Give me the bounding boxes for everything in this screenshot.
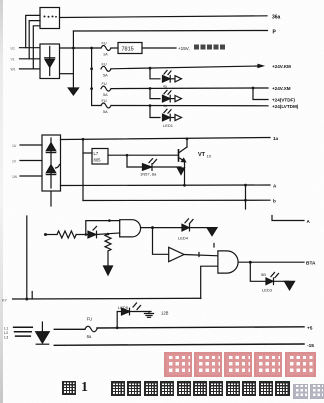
wire riser — [117, 312, 122, 328]
svg-text:4a: 4a — [163, 84, 167, 88]
wire drop to zener line — [126, 155, 128, 167]
node rail tap — [85, 233, 88, 236]
wire bus to regulator — [83, 152, 92, 154]
wire row2 main — [111, 66, 258, 69]
rail P to right edge — [73, 30, 267, 33]
node row4 branch — [149, 104, 152, 107]
wire vertical bus2 feeding fuse rows — [92, 48, 101, 106]
svg-text:L7: L7 — [94, 151, 99, 156]
breaker box QF — [40, 8, 60, 29]
node tall vertical joins — [25, 298, 28, 301]
svg-text:FU: FU — [102, 42, 107, 46]
wire AND2 lower input feedback — [201, 266, 218, 298]
svg-text:L2: L2 — [4, 331, 8, 335]
wire AND1 output — [141, 227, 182, 229]
svg-text:12B: 12B — [161, 311, 169, 316]
wire 7815 output — [142, 47, 176, 49]
rail b — [83, 199, 270, 201]
svg-text:FU: FU — [102, 82, 107, 86]
node LED5 riser — [116, 326, 119, 329]
bracket stub A — [272, 216, 304, 221]
wire bus x83 down — [82, 139, 84, 200]
svg-text:VT: VT — [198, 152, 206, 158]
node on top rail — [108, 219, 111, 222]
wire bus down from rail A to section3 — [245, 185, 247, 209]
svg-text:1A: 1A — [103, 53, 108, 57]
svg-text:+15V,: +15V, — [178, 46, 190, 51]
wire VC1 minus output — [60, 73, 73, 75]
wire zener line — [127, 166, 181, 168]
svg-text:5A: 5A — [103, 93, 108, 97]
LED D21 — [163, 76, 171, 83]
arrow ground R2 — [104, 266, 113, 275]
LED D41 — [163, 114, 171, 121]
diode D8 — [41, 322, 43, 332]
svg-text:LED4: LED4 — [178, 236, 189, 241]
pin mark — [198, 253, 200, 257]
LED D6 — [182, 224, 189, 231]
buffer U4 — [169, 247, 184, 261]
zener VZ1 — [143, 164, 152, 171]
svg-text:805: 805 — [94, 158, 102, 163]
ground G1 — [68, 88, 78, 95]
wire VC2 top output rail — [61, 138, 271, 140]
svg-text:1V: 1V — [12, 159, 17, 163]
stub below VC2 — [50, 191, 52, 206]
fuse FU4 — [101, 103, 111, 108]
open arrow row2 branch end — [175, 76, 182, 82]
wire minus line — [54, 344, 304, 345]
svg-text:FU: FU — [87, 317, 93, 322]
svg-text:LED3: LED3 — [262, 288, 273, 293]
svg-text:36a: 36a — [272, 14, 281, 20]
node row3 branch — [149, 87, 152, 90]
svg-text:+24(VTDF): +24(VTDF) — [272, 98, 295, 103]
LED D7 — [266, 278, 273, 285]
bridge rectifier VC1 — [40, 44, 60, 79]
svg-text:1a: 1a — [273, 136, 279, 141]
diode VC2 upper — [46, 143, 55, 151]
svg-text:KY: KY — [2, 298, 8, 302]
fuse FU1 — [101, 46, 111, 51]
svg-text:BTA: BTA — [306, 261, 316, 267]
node R2 tap — [107, 233, 110, 236]
AND gate U3 — [120, 220, 141, 237]
svg-text:W1: W1 — [11, 68, 16, 72]
transistor VT10 — [178, 150, 180, 161]
phase input 2U — [20, 144, 42, 146]
svg-text:FU: FU — [102, 99, 107, 103]
ground G3 — [207, 228, 217, 236]
wire tall left vertical — [26, 216, 28, 299]
svg-text:L3: L3 — [4, 336, 8, 340]
wire up to top rail — [86, 221, 120, 235]
svg-text:5A: 5A — [103, 73, 108, 77]
transformer bars — [14, 326, 33, 328]
watermark yiditala training (pink) — [164, 352, 192, 377]
caption 图1 — [62, 381, 76, 395]
svg-text:L1: L1 — [4, 327, 8, 331]
fuse FU3 — [101, 86, 111, 91]
wire row3 split down to VTDF — [253, 88, 268, 100]
resistor R2 vertical — [105, 234, 111, 251]
wire U2 output to base — [108, 154, 179, 156]
node zener tap — [126, 154, 129, 157]
wire QF tap phase 2 — [29, 21, 40, 59]
open arrow row3 branch end — [175, 96, 182, 102]
node at bus1 — [72, 47, 75, 50]
wire +5 line — [97, 327, 304, 328]
diode D5 — [88, 231, 96, 238]
node row2 branch — [149, 67, 152, 70]
wire LED3 to gnd — [274, 280, 290, 282]
svg-text:1U: 1U — [12, 144, 17, 148]
tick on KY line — [31, 292, 33, 300]
node bus2 row3 — [90, 87, 93, 90]
wire AND2 output to BTA — [238, 261, 304, 263]
wire row3 to XM label — [253, 87, 268, 89]
wire node to resistor — [46, 234, 58, 236]
wire LED to gnd — [190, 227, 213, 229]
svg-text:5B: 5B — [261, 272, 266, 277]
svg-text:+5: +5 — [307, 326, 313, 332]
svg-text:LED1: LED1 — [163, 123, 174, 128]
bridge rectifier VC2 — [42, 135, 61, 191]
left scan edge band — [0, 0, 3, 403]
phase input U1 — [20, 47, 40, 49]
LED D31 — [163, 95, 171, 102]
caption chars — [111, 381, 125, 396]
svg-text:b: b — [273, 199, 276, 204]
thyristor VC2 lower — [46, 165, 55, 173]
wire row4 LED branch — [150, 106, 160, 118]
wire row2 LED branch — [150, 68, 160, 79]
svg-text:+24(LVTDM): +24(LVTDM) — [272, 104, 299, 109]
watermark expert gray — [293, 384, 308, 399]
wire QF tap phase 1 — [26, 15, 40, 47]
wire QF output to right, net 36a — [60, 16, 268, 18]
svg-text:U1: U1 — [11, 47, 15, 51]
svg-text:1W: 1W — [12, 175, 18, 179]
wire resistor to diode — [76, 234, 88, 236]
svg-text:FU: FU — [102, 62, 107, 66]
arrow row2 end — [258, 64, 263, 67]
ground G4 — [285, 281, 295, 290]
wire AND1 out down to buffer — [153, 228, 169, 255]
rail A — [61, 184, 271, 187]
regulator 7815 — [111, 47, 118, 49]
wire to fuse — [54, 328, 85, 330]
node row3 split — [252, 87, 255, 90]
wire row3 main — [111, 87, 253, 90]
ground G2 — [178, 168, 185, 175]
ground G5 bars — [148, 312, 150, 314]
open arrow row4 branch end — [175, 114, 182, 120]
node at bus2 — [90, 47, 93, 50]
node rail bus x83 — [82, 138, 85, 141]
svg-text:-15: -15 — [307, 343, 314, 349]
wire KY line — [13, 297, 201, 300]
svg-text:10: 10 — [207, 154, 212, 159]
phase input W1 — [20, 68, 40, 70]
svg-text:+24V.XM: +24V.XM — [272, 86, 291, 91]
wire row4 main — [111, 105, 268, 107]
wire buffer to AND2 — [184, 255, 218, 256]
svg-text:+24V.KM: +24V.KM — [272, 64, 291, 69]
wire diode to AND1 — [97, 233, 120, 235]
svg-text:V1: V1 — [11, 58, 15, 62]
phase input 2W — [20, 175, 42, 177]
node input — [44, 233, 47, 236]
resistor R1 — [57, 231, 76, 238]
phase input V1 — [20, 58, 40, 60]
wire row3 LED branch — [150, 89, 160, 99]
wire vertical bus1 — [72, 31, 74, 88]
AND gate U5 — [218, 251, 238, 273]
fuse FU2 — [101, 66, 111, 71]
regulator U2 — [92, 149, 108, 165]
node bus2 row2 — [90, 67, 93, 70]
phase input 2V — [20, 160, 42, 162]
wire drop to LED3 — [250, 262, 266, 281]
wire LED to gnd bars — [130, 311, 152, 313]
svg-text:7815: 7815 — [122, 47, 134, 53]
wire VC1 plus output — [60, 47, 101, 49]
svg-text:5A: 5A — [103, 110, 108, 114]
svg-text:6a: 6a — [87, 334, 92, 339]
QF inner text marks — [44, 16, 57, 18]
wire QF tap phase 3 — [33, 26, 40, 69]
svg-text:1N57, 8a: 1N57, 8a — [140, 172, 157, 177]
